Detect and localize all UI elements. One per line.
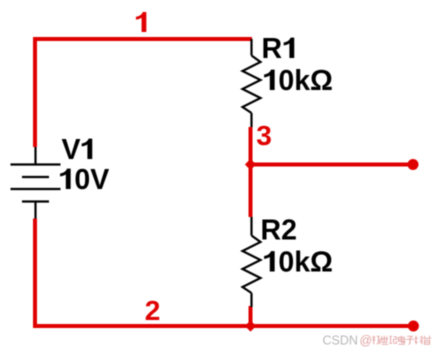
svg-text:3: 3 bbox=[256, 120, 272, 151]
wire net 1 (battery V1 + terminal, top rail, to R1 pin 1) bbox=[35, 39, 252, 147]
resistor R2 bbox=[243, 217, 261, 307]
junction node 2 bbox=[245, 320, 256, 331]
battery value 10V bbox=[60, 169, 71, 189]
resistor value 10kΩ (R1) bbox=[264, 70, 275, 90]
svg-text:R: R bbox=[262, 33, 283, 65]
terminal node 3 (right dot) bbox=[408, 159, 419, 170]
resistor R1 bbox=[243, 39, 261, 127]
watermark CJK glyphs (drawn strokes) bbox=[372, 336, 431, 345]
svg-text:R2: R2 bbox=[261, 215, 297, 247]
svg-text:@: @ bbox=[360, 334, 373, 348]
svg-text:0kΩ: 0kΩ bbox=[278, 65, 333, 97]
net label 1 bbox=[136, 12, 146, 32]
battery V1 bbox=[11, 147, 61, 219]
svg-text:CSDN: CSDN bbox=[323, 334, 358, 348]
wire net 3 horizontal (junction to right terminal) bbox=[251, 163, 412, 167]
junction node 3 bbox=[245, 159, 256, 170]
svg-text:0V: 0V bbox=[74, 164, 109, 196]
terminal node 2 (right dot) bbox=[408, 321, 419, 332]
svg-text:V: V bbox=[62, 134, 81, 166]
wire net 3 vertical (R1 pin 2 to R2 pin 1) bbox=[249, 127, 253, 217]
svg-text:2: 2 bbox=[145, 295, 161, 326]
wire (R2 pin 2 to net 2 junction) bbox=[249, 306, 253, 326]
wire net 2 (battery V1 - terminal, bottom rail, to right terminal) bbox=[35, 219, 411, 327]
svg-text:0kΩ: 0kΩ bbox=[278, 247, 333, 279]
resistor value 10kΩ (R2) bbox=[264, 251, 275, 271]
